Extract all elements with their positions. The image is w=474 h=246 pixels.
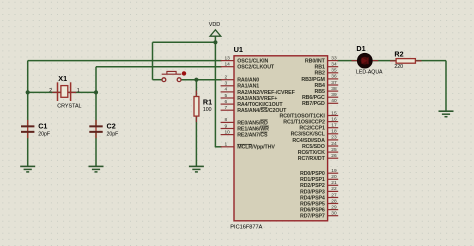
svg-text:27: 27 <box>331 192 337 198</box>
svg-text:D1: D1 <box>356 44 365 53</box>
wire R2 down to ground x=446 <box>445 61 447 111</box>
svg-text:4: 4 <box>225 87 228 93</box>
pin 8 RE0/AN5/RD <box>221 117 268 126</box>
LED D1 <box>352 44 384 76</box>
svg-text:2: 2 <box>225 75 228 81</box>
svg-text:20: 20 <box>331 174 337 180</box>
svg-text:2: 2 <box>49 88 52 94</box>
svg-text:RC4/SDI/SDA: RC4/SDI/SDA <box>292 138 325 144</box>
svg-text:28: 28 <box>331 198 337 204</box>
pin 37 RB4 <box>315 80 339 89</box>
svg-text:10: 10 <box>225 129 231 135</box>
svg-text:6: 6 <box>225 99 228 105</box>
svg-text:35: 35 <box>331 68 337 74</box>
svg-text:23: 23 <box>331 135 337 141</box>
capacitor C1 <box>21 120 50 138</box>
svg-text:100: 100 <box>203 107 212 113</box>
pin 24 RC5/SDO <box>302 141 338 150</box>
pin 7 RA5/AN4/SS/C2OUT <box>221 105 287 114</box>
pin 34 RB1 <box>315 62 339 71</box>
svg-text:16: 16 <box>331 116 337 122</box>
svg-text:24: 24 <box>331 141 337 147</box>
svg-text:RC2/CCP1: RC2/CCP1 <box>299 126 325 132</box>
pin 14 OSC2/CLKOUT <box>221 62 275 71</box>
svg-text:3: 3 <box>225 81 228 87</box>
pin 36 RB3/PGM <box>301 74 338 83</box>
wire into button left pin <box>153 79 163 81</box>
svg-text:RB1: RB1 <box>315 65 325 71</box>
pin 26 RC7/RX/DT <box>298 153 338 162</box>
svg-text:RC1/T1OSI/CCP2: RC1/T1OSI/CCP2 <box>283 120 325 126</box>
node crystal left junction <box>26 90 30 94</box>
svg-text:1: 1 <box>225 142 228 148</box>
svg-text:RE1/AN6/WR: RE1/AN6/WR <box>237 126 269 132</box>
svg-text:19: 19 <box>331 168 337 174</box>
pin 17 RC2/CCP1 <box>299 123 338 132</box>
wire crystal row y=93.2 <box>28 91 96 93</box>
ground below R1 <box>189 165 204 167</box>
wire OSC2 net: x=96 to chip pin14 <box>96 66 222 68</box>
ground below C2 <box>89 165 104 167</box>
svg-text:RE2/AN7/CS: RE2/AN7/CS <box>237 133 268 139</box>
svg-text:RB2: RB2 <box>315 71 325 77</box>
pin 29 RD6/PSP6 <box>300 204 338 213</box>
pin 27 RD4/PSP4 <box>300 192 338 201</box>
svg-text:U1: U1 <box>234 45 243 54</box>
node crystal right junction <box>94 90 98 94</box>
pin 33 RB0/INT <box>305 55 338 64</box>
svg-text:RC5/SDO: RC5/SDO <box>302 144 325 150</box>
pin 22 RD3/PSP3 <box>300 186 338 195</box>
svg-text:25: 25 <box>331 147 337 153</box>
pin 16 RC1/T1OSI/CCP2 <box>283 116 338 125</box>
svg-text:RC7/RX/DT: RC7/RX/DT <box>298 156 326 162</box>
wire VDD junction to button, y=42.3 <box>153 41 216 43</box>
svg-text:LED-AQUA: LED-AQUA <box>356 69 383 75</box>
wire OSC1 net: corner x=27.7 to chip pin13 <box>28 60 222 62</box>
pin 1 MCLR/Vpp/THV <box>221 142 276 151</box>
svg-text:R1: R1 <box>203 98 212 107</box>
svg-text:1: 1 <box>77 88 80 94</box>
pin 19 RD0/PSP0 <box>300 168 338 177</box>
wire C2 bottom to ground <box>95 131 97 166</box>
svg-text:29: 29 <box>331 204 337 210</box>
svg-text:RB5: RB5 <box>315 89 325 95</box>
svg-text:RB4: RB4 <box>315 83 325 89</box>
pin 23 RC4/SDI/SDA <box>292 135 338 144</box>
svg-text:RB3/PGM: RB3/PGM <box>301 77 325 83</box>
pin 40 RB7/PGD <box>302 98 338 107</box>
svg-text:8: 8 <box>225 117 228 123</box>
pin 18 RC3/SCK/SCL <box>291 129 339 138</box>
pin 10 RE2/AN7/CS <box>221 129 268 138</box>
svg-text:RC0/T1OSO/T1CKI: RC0/T1OSO/T1CKI <box>279 113 325 119</box>
svg-text:R2: R2 <box>394 49 403 58</box>
wire junction down to R1 <box>195 80 197 97</box>
pin 20 RD1/PSP1 <box>300 174 338 183</box>
wire RB0 to LED and R2, y=60.6 <box>337 60 446 62</box>
wire MCLR to chip pin 1 <box>215 146 222 148</box>
IC U1 PIC16F877A microcontroller body <box>234 56 328 221</box>
power VDD symbol <box>210 30 221 36</box>
node button/R1/RA0 junction <box>194 78 198 82</box>
svg-text:30: 30 <box>331 211 337 217</box>
pin 38 RB5 <box>315 86 339 95</box>
crystal X1 <box>49 74 81 109</box>
svg-text:CRYSTAL: CRYSTAL <box>57 103 81 109</box>
capacitor C2 <box>89 120 118 138</box>
resistor R2 <box>390 49 422 70</box>
svg-text:RD5/PSP5: RD5/PSP5 <box>300 201 325 207</box>
svg-text:RB0/INT: RB0/INT <box>305 59 326 65</box>
svg-text:37: 37 <box>331 80 337 86</box>
svg-text:21: 21 <box>331 180 337 186</box>
svg-text:X1: X1 <box>58 74 67 83</box>
svg-text:20pF: 20pF <box>38 131 50 137</box>
svg-text:20pF: 20pF <box>107 131 119 137</box>
pin 15 RC0/T1OSO/T1CKI <box>279 110 338 119</box>
wire R1 bottom to ground <box>195 116 197 166</box>
svg-text:14: 14 <box>225 62 231 68</box>
ground below R2 <box>439 110 454 112</box>
svg-text:34: 34 <box>331 62 337 68</box>
svg-text:RD3/PSP3: RD3/PSP3 <box>300 189 325 195</box>
pin 35 RB2 <box>315 68 339 77</box>
svg-text:OSC2/CLKOUT: OSC2/CLKOUT <box>237 65 275 71</box>
svg-text:RD6/PSP6: RD6/PSP6 <box>300 208 325 214</box>
wire C1 bottom to ground <box>27 131 29 166</box>
svg-text:RD7/PSP7: RD7/PSP7 <box>300 214 325 220</box>
resistor R1 <box>194 91 212 123</box>
svg-text:7: 7 <box>225 105 228 111</box>
node VDD junction <box>213 40 217 44</box>
wire button right pin to chip RA0 <box>181 79 222 81</box>
pin 5 RA3/AN3/VREF+ <box>221 93 278 102</box>
pin 4 RA2/AN2/VREF-/CVREF <box>221 87 296 96</box>
wire crystal right drop x=96 <box>95 67 97 127</box>
pin 21 RD2/PSP2 <box>300 180 338 189</box>
pin 2 RA0/AN0 <box>221 75 260 84</box>
pin 6 RA4/T0CKI/C1OUT <box>221 99 284 108</box>
svg-text:15: 15 <box>331 110 337 116</box>
svg-text:RA4/T0CKI/C1OUT: RA4/T0CKI/C1OUT <box>237 102 283 108</box>
svg-text:26: 26 <box>331 153 337 159</box>
pin 30 RD7/PSP7 <box>300 211 338 220</box>
svg-text:33: 33 <box>331 55 337 61</box>
svg-text:22: 22 <box>331 186 337 192</box>
svg-text:OSC1/CLKIN: OSC1/CLKIN <box>237 59 268 65</box>
svg-text:36: 36 <box>331 74 337 80</box>
svg-text:RC3/SCK/SCL: RC3/SCK/SCL <box>291 132 326 138</box>
svg-text:PIC16F877A: PIC16F877A <box>230 225 262 231</box>
svg-text:RB6/PGC: RB6/PGC <box>302 95 325 101</box>
pin 28 RD5/PSP5 <box>300 198 338 207</box>
svg-text:18: 18 <box>331 129 337 135</box>
svg-text:RC6/TX/CK: RC6/TX/CK <box>298 150 325 156</box>
push button switch <box>162 71 187 81</box>
pin 13 OSC1/CLKIN <box>221 55 269 64</box>
ground below C1 <box>20 165 35 167</box>
svg-text:220: 220 <box>394 64 403 70</box>
svg-text:RA3/AN3/VREF+: RA3/AN3/VREF+ <box>237 96 277 102</box>
svg-text:VDD: VDD <box>209 22 220 28</box>
svg-text:C2: C2 <box>107 122 116 131</box>
svg-text:40: 40 <box>331 98 337 104</box>
pin 25 RC6/TX/CK <box>298 147 338 156</box>
pin 39 RB6/PGC <box>302 92 338 101</box>
svg-text:17: 17 <box>331 123 337 129</box>
svg-text:13: 13 <box>225 55 231 61</box>
svg-text:RD0/PSP0: RD0/PSP0 <box>300 171 325 177</box>
svg-text:RD2/PSP2: RD2/PSP2 <box>300 183 325 189</box>
svg-text:MCLR/Vpp/THV: MCLR/Vpp/THV <box>237 145 275 151</box>
wire crystal left drop x=27.7 <box>27 61 29 127</box>
svg-text:RA0/AN0: RA0/AN0 <box>237 78 259 84</box>
pin 9 RE1/AN6/WR <box>221 123 270 132</box>
svg-text:C1: C1 <box>38 122 47 131</box>
svg-text:RB7/PGD: RB7/PGD <box>302 101 325 107</box>
pin 3 RA1/AN1 <box>221 81 260 90</box>
svg-text:RA1/AN1: RA1/AN1 <box>237 84 259 90</box>
svg-text:9: 9 <box>225 123 228 129</box>
wire VDD rail: arrow down to MCLR, x=215.4 <box>214 36 216 147</box>
svg-text:5: 5 <box>225 93 228 99</box>
svg-text:39: 39 <box>331 92 337 98</box>
wire button left drop, x=152.5 <box>152 42 154 79</box>
svg-text:RE0/AN5/RD: RE0/AN5/RD <box>237 120 268 126</box>
svg-text:RA2/AN2/VREF-/CVREF: RA2/AN2/VREF-/CVREF <box>237 90 295 96</box>
svg-text:38: 38 <box>331 86 337 92</box>
